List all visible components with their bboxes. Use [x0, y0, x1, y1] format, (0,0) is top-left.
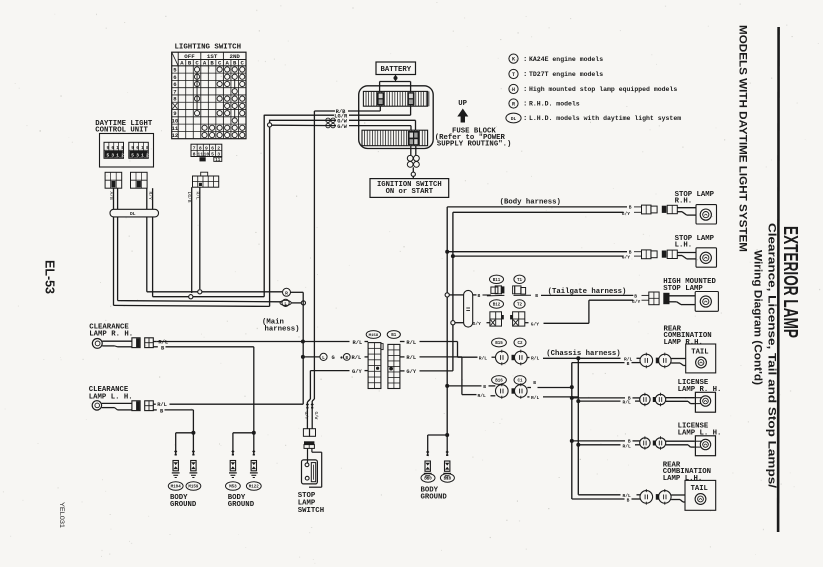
high mounted stop lamp box	[695, 292, 718, 312]
connector B16/C1	[492, 376, 507, 385]
wire riser G/W	[269, 120, 271, 307]
svg-text:R/L: R/L	[406, 340, 416, 346]
svg-text:11: 11	[197, 152, 203, 158]
battery	[376, 62, 416, 75]
svg-text:B16: B16	[495, 380, 503, 384]
svg-text:6: 6	[136, 146, 139, 151]
wire to LG/R riser	[153, 296, 265, 298]
svg-text:6: 6	[111, 146, 114, 151]
svg-text:1: 1	[116, 154, 119, 159]
svg-text:R: R	[512, 102, 515, 108]
svg-text:10: 10	[172, 118, 179, 125]
svg-text::: :	[523, 71, 527, 79]
svg-text:2: 2	[217, 145, 220, 151]
svg-text:T: T	[512, 72, 515, 78]
svg-text:R/L: R/L	[623, 443, 632, 449]
stop lamp switch connectors	[303, 429, 309, 437]
svg-text:9: 9	[107, 146, 110, 151]
svg-text:GROUND: GROUND	[170, 501, 197, 509]
lighting switch pin footer	[191, 144, 222, 156]
svg-text:TD27T engine models: TD27T engine models	[529, 71, 603, 78]
svg-text:8: 8	[146, 146, 149, 151]
license lamp R.H.	[572, 397, 625, 399]
svg-text:R/L: R/L	[531, 356, 540, 362]
svg-text:B: B	[629, 249, 632, 255]
stop lamp R.H. connectors	[642, 205, 652, 214]
svg-text:B: B	[533, 380, 536, 386]
stop lamp switch SW2	[307, 448, 309, 463]
wire R/L row2 to B16	[461, 357, 463, 395]
svg-text:KA24E engine models: KA24E engine models	[529, 56, 603, 63]
svg-text:G/W: G/W	[313, 412, 318, 420]
connector B11/T1	[490, 275, 504, 283]
wire R/B from fuse	[379, 106, 381, 111]
svg-text:M104: M104	[171, 486, 182, 490]
svg-text:LAMP L.H.: LAMP L.H.	[663, 475, 702, 483]
wires fuse to ignition switch	[410, 146, 412, 155]
svg-text:M122: M122	[249, 486, 260, 490]
svg-text:9: 9	[205, 145, 208, 151]
wires: grommet down to junctions	[146, 217, 148, 292]
svg-text:High mounted stop lamp equippe: High mounted stop lamp equipped models	[529, 86, 677, 93]
body ground M53/M122	[252, 431, 256, 435]
svg-text:G/Y: G/Y	[622, 211, 631, 217]
svg-text:11: 11	[215, 159, 221, 163]
svg-text:LAMP R. H.: LAMP R. H.	[678, 386, 722, 394]
svg-text:G/Y: G/Y	[406, 369, 416, 375]
fuse block FB	[359, 86, 434, 149]
body ground B10/B18	[428, 434, 448, 436]
svg-text::: :	[523, 115, 527, 123]
svg-text:ON or START: ON or START	[386, 188, 434, 196]
connector M158	[366, 331, 380, 339]
wire R/L row1 clearance RH to M158	[157, 341, 350, 343]
svg-text:9: 9	[131, 146, 134, 151]
svg-text:B15: B15	[495, 342, 503, 346]
svg-text:B: B	[629, 205, 632, 211]
svg-text:L.H.D. models with daytime lig: L.H.D. models with daytime light system	[529, 115, 681, 122]
svg-text:R/L: R/L	[478, 393, 487, 399]
svg-text:R: R	[285, 290, 288, 296]
svg-text:R.H.: R.H.	[675, 198, 693, 206]
svg-text:GROUND: GROUND	[421, 494, 448, 502]
wire R/L from B1 to B15	[457, 342, 459, 358]
svg-text::: :	[523, 56, 527, 64]
svg-text:G: G	[332, 355, 335, 361]
svg-text:M159: M159	[188, 486, 199, 490]
svg-text:3: 3	[111, 154, 114, 159]
svg-text:3: 3	[217, 152, 220, 158]
svg-text:SUPPLY ROUTING".): SUPPLY ROUTING".)	[437, 140, 511, 148]
svg-text:G/W: G/W	[337, 124, 347, 130]
svg-text:UP: UP	[458, 100, 467, 108]
stop lamp L.H. connectors	[642, 250, 652, 259]
svg-text:1: 1	[116, 146, 119, 151]
svg-text:R/L: R/L	[623, 400, 632, 406]
wire clearance RH B to ground	[166, 346, 254, 348]
wires to high mounted lamp	[670, 295, 696, 297]
wire battery to fuses	[395, 75, 397, 82]
svg-text:M158: M158	[369, 334, 379, 338]
svg-text:8: 8	[121, 146, 124, 151]
page rule (right sidebar divider)	[777, 27, 780, 532]
svg-text:MODELS WITH DAYTIME LIGHT SYST: MODELS WITH DAYTIME LIGHT SYSTEM	[737, 25, 749, 252]
svg-text::: :	[523, 86, 527, 94]
svg-text:(Body harness): (Body harness)	[500, 199, 561, 207]
svg-text:R/L: R/L	[479, 355, 488, 361]
rear combination lamp L.H.	[578, 494, 620, 496]
body ground M104/M159	[191, 431, 195, 435]
svg-text:Wiring Diagram (Cont'd): Wiring Diagram (Cont'd)	[752, 250, 764, 385]
svg-text:B: B	[627, 497, 630, 503]
license lamp L.H.	[572, 440, 625, 442]
svg-text:H: H	[512, 87, 515, 93]
wire G/W 1	[415, 120, 417, 130]
svg-text:R/L: R/L	[531, 395, 540, 401]
wire G/Y tailgate riser	[544, 322, 589, 324]
wire G/Y riser from switch	[309, 371, 311, 399]
grommet capsule (tailgate)	[464, 290, 473, 327]
connector B12/T2	[490, 300, 504, 308]
svg-text:B: B	[627, 361, 630, 367]
svg-text:T1: T1	[517, 279, 523, 283]
wire riser LG/R	[263, 115, 265, 297]
svg-text:R.H.D. models: R.H.D. models	[529, 101, 580, 108]
svg-text:B: B	[483, 384, 486, 390]
wire clearance LH B to ground	[165, 409, 194, 411]
svg-text:G/Y: G/Y	[622, 255, 631, 261]
svg-text:R/Y: R/Y	[147, 192, 153, 201]
ignition switch SW1	[370, 179, 449, 198]
wire to R.H. lamp	[677, 207, 696, 209]
wire B bus (tail ground)	[571, 363, 573, 499]
svg-text:3: 3	[136, 154, 139, 159]
svg-text:5: 5	[107, 154, 110, 159]
svg-text:G/Y: G/Y	[352, 369, 362, 375]
svg-text:B: B	[634, 293, 637, 299]
lighting switch connector	[201, 172, 208, 176]
wire G/Y into capsule	[455, 322, 464, 324]
svg-text:11: 11	[172, 125, 179, 132]
grommet DL capsule	[110, 209, 159, 217]
wire clearance LH R/L	[170, 403, 304, 405]
svg-text:12: 12	[172, 132, 179, 139]
wire G/Y bus	[452, 212, 454, 371]
svg-text:2: 2	[121, 154, 124, 159]
wire row2 G to R/L	[303, 356, 320, 358]
wire R/L bus (tail feed)	[577, 358, 579, 495]
svg-text:DL: DL	[511, 117, 517, 122]
stop lamp L.H. wires	[447, 251, 627, 253]
svg-text:R/L: R/L	[353, 340, 363, 346]
wire: lighting switch outputs	[191, 187, 193, 293]
wire riser R/B to stop lamp switch	[313, 111, 315, 399]
wires B1 east side	[400, 341, 405, 343]
clearance R/L bus riser	[302, 292, 304, 404]
svg-text:LAMP R. H.: LAMP R. H.	[89, 331, 133, 339]
svg-text:EXTERIOR LAMP: EXTERIOR LAMP	[779, 226, 801, 338]
svg-text:R/L: R/L	[352, 355, 362, 361]
svg-text:(Tailgate harness): (Tailgate harness)	[548, 288, 627, 296]
wire G/W 2	[410, 126, 412, 131]
svg-text:M53: M53	[229, 486, 237, 490]
svg-text:L: L	[322, 356, 325, 361]
svg-text:Clearance, License, Tail and S: Clearance, License, Tail and Stop Lamps/	[766, 223, 778, 488]
wire B bus	[446, 207, 448, 435]
svg-text:A/B: A/B	[108, 192, 114, 201]
svg-text:SWITCH: SWITCH	[298, 507, 324, 515]
svg-text:B: B	[478, 293, 481, 299]
svg-text:T2: T2	[517, 304, 523, 308]
svg-text:G/Y: G/Y	[473, 321, 482, 327]
svg-text:B11: B11	[493, 279, 501, 283]
svg-text:6: 6	[211, 145, 214, 151]
wire to G/W riser	[114, 305, 270, 306]
svg-text:10: 10	[204, 152, 210, 158]
wires: daytime unit to grommet	[113, 188, 115, 209]
rear combination lamp R.H.	[578, 357, 620, 359]
svg-text:G/Y: G/Y	[531, 321, 540, 327]
svg-text:7: 7	[173, 88, 176, 95]
svg-text:DL: DL	[130, 211, 136, 217]
svg-text:8: 8	[193, 152, 196, 158]
svg-text:TAIL: TAIL	[691, 485, 708, 493]
wire R to main harness	[147, 291, 282, 293]
connector B15/C2	[492, 338, 507, 347]
svg-text:R/L: R/L	[157, 402, 167, 408]
svg-text:LAMP L. H.: LAMP L. H.	[89, 393, 133, 401]
stop lamp R.H. wires	[447, 206, 627, 208]
wire B into capsule	[449, 294, 463, 296]
svg-text:STOP LAMP: STOP LAMP	[663, 285, 703, 293]
svg-text:5: 5	[131, 154, 134, 159]
svg-text::: :	[523, 101, 527, 109]
daytime unit connectors	[105, 172, 122, 188]
svg-text:LAMP R.H.: LAMP R.H.	[664, 339, 703, 347]
svg-text:8: 8	[199, 145, 202, 151]
svg-text:GROUND: GROUND	[228, 501, 255, 509]
lamp box R.H.	[696, 205, 717, 224]
wire B to B16	[447, 385, 481, 387]
svg-text:C2: C2	[517, 342, 523, 346]
svg-text:TAIL: TAIL	[691, 349, 708, 357]
connector B1	[387, 331, 400, 339]
svg-text:B18: B18	[444, 478, 452, 482]
svg-text:EL-53: EL-53	[43, 260, 58, 294]
wire G/Y row3	[310, 370, 349, 372]
wire L to main harness	[118, 301, 282, 302]
svg-text:7: 7	[193, 145, 196, 151]
svg-text:G/Y: G/Y	[632, 299, 641, 305]
svg-text:2: 2	[146, 154, 149, 159]
svg-text:R/L: R/L	[195, 192, 201, 201]
svg-text:L.H.: L.H.	[675, 242, 693, 250]
svg-text:1: 1	[141, 154, 144, 159]
svg-text:G/Y: G/Y	[303, 412, 308, 420]
svg-text:YEL031: YEL031	[58, 502, 64, 529]
svg-text:LAMP L. H.: LAMP L. H.	[678, 430, 722, 438]
svg-text:5: 5	[211, 152, 214, 158]
svg-text:1: 1	[141, 146, 144, 151]
wire to L.H. lamp	[677, 252, 696, 254]
lamp box L.H.	[696, 248, 717, 267]
svg-text:K: K	[512, 57, 515, 63]
legend	[509, 54, 518, 63]
svg-text:B: B	[535, 293, 538, 299]
svg-text:LG/B: LG/B	[186, 192, 192, 203]
svg-text:R/L: R/L	[406, 355, 416, 361]
svg-text:(Chassis harness): (Chassis harness)	[546, 350, 620, 358]
svg-text:harness): harness)	[265, 326, 300, 334]
svg-text:B1: B1	[391, 334, 397, 338]
wire LG/R from fuse	[410, 106, 412, 115]
svg-text:B10: B10	[424, 478, 432, 482]
svg-text:BATTERY: BATTERY	[380, 66, 411, 74]
svg-text:C1: C1	[517, 380, 523, 384]
svg-text:LIGHTING SWITCH: LIGHTING SWITCH	[175, 44, 242, 52]
svg-text:B12: B12	[493, 304, 501, 308]
